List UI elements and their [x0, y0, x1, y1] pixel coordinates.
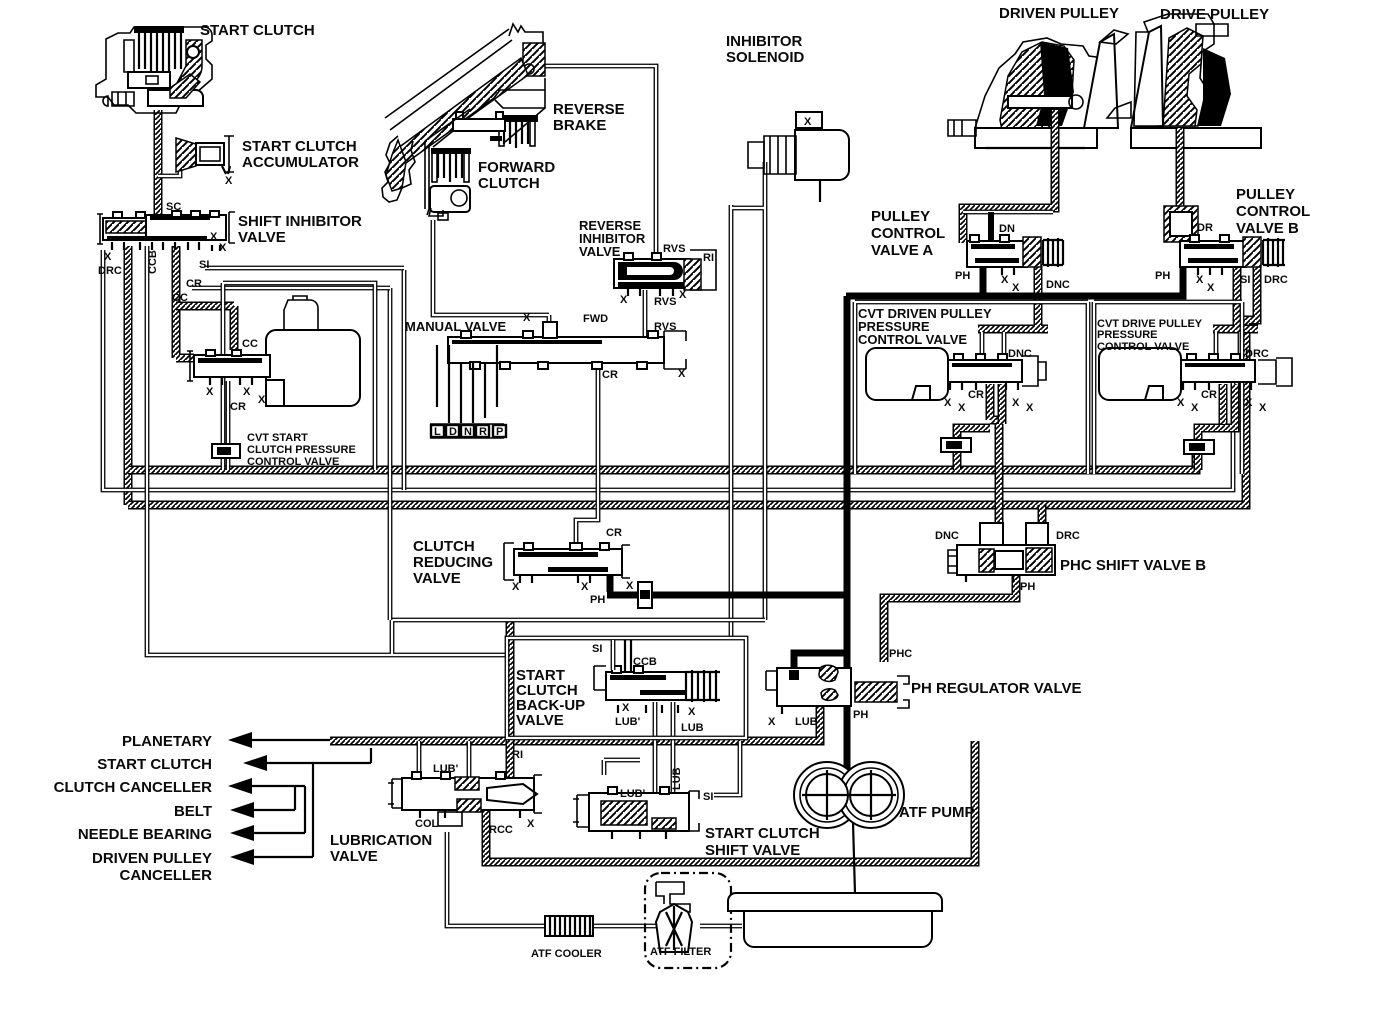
svg-text:CLUTCH CANCELLER: CLUTCH CANCELLER: [54, 779, 212, 796]
svg-text:RI: RI: [703, 252, 714, 264]
chamber DNC above driven PCV valve: [982, 332, 1004, 364]
pipe back-up valve to start clutch shift valve: [604, 702, 673, 795]
svg-text:X: X: [523, 312, 531, 324]
svg-text:CCB: CCB: [147, 250, 159, 274]
svg-text:X: X: [1001, 274, 1009, 286]
svg-text:X: X: [243, 386, 251, 398]
component ATF filter: [656, 882, 692, 952]
svg-text:LUB: LUB: [671, 767, 683, 790]
component drive pulley drawing: [1107, 14, 1261, 150]
svg-text:PRESSURE: PRESSURE: [1097, 329, 1158, 341]
svg-text:INHIBITOR: INHIBITOR: [726, 33, 803, 50]
svg-text:X: X: [944, 397, 952, 409]
svg-text:PULLEY: PULLEY: [871, 208, 930, 225]
svg-text:FWD: FWD: [583, 313, 608, 325]
pipe drive PCV second stub: [1219, 384, 1228, 424]
pipe DRC chamber stub of PHC shift valve B: [1038, 505, 1047, 525]
svg-text:CC: CC: [242, 338, 258, 350]
pipe DNC driven PCV down to PHC shift valve chamber: [990, 384, 999, 523]
svg-text:X: X: [679, 289, 687, 301]
valve lubrication: [388, 772, 542, 818]
svg-text:START CLUTCH: START CLUTCH: [242, 138, 357, 155]
svg-text:CCB: CCB: [633, 656, 657, 668]
pipe drive PCV down and to fitting: [1198, 384, 1235, 470]
svg-text:DR: DR: [1197, 222, 1213, 234]
svg-text:X: X: [620, 294, 628, 306]
svg-text:X: X: [219, 242, 227, 254]
svg-text:SC: SC: [166, 201, 181, 213]
component inhibitor solenoid: [748, 112, 849, 202]
svg-text:X: X: [512, 581, 520, 593]
svg-text:X: X: [626, 580, 634, 592]
pipe SI to start clutch shift valve: [714, 741, 740, 795]
svg-text:REVERSE: REVERSE: [553, 101, 625, 118]
svg-text:MANUAL VALVE: MANUAL VALVE: [405, 319, 506, 334]
svg-text:FORWARD: FORWARD: [478, 159, 555, 176]
svg-text:CLUTCH: CLUTCH: [413, 538, 475, 555]
svg-text:ATF FILTER: ATF FILTER: [650, 946, 711, 958]
arrow NEEDLE BEARING: [230, 786, 305, 841]
fitting COL elbow: [438, 812, 462, 826]
valve CVT driven pulley pressure control: [866, 348, 1046, 400]
svg-text:SOLENOID: SOLENOID: [726, 49, 805, 66]
component ATF cooler: [545, 916, 593, 936]
svg-text:X: X: [1026, 402, 1034, 414]
svg-text:CR: CR: [602, 369, 618, 381]
svg-text:X: X: [688, 706, 696, 718]
component start clutch drawing: [96, 26, 212, 113]
svg-text:DRC: DRC: [98, 265, 122, 277]
svg-text:X: X: [1191, 402, 1199, 414]
svg-text:SI: SI: [703, 791, 713, 803]
svg-text:X: X: [1177, 397, 1185, 409]
svg-text:PH: PH: [955, 270, 970, 282]
svg-text:CANCELLER: CANCELLER: [120, 867, 213, 884]
pipe accumulator link: [158, 164, 180, 176]
svg-text:VALVE A: VALVE A: [871, 242, 933, 259]
chamber DRC above drive PCV valve: [1216, 332, 1240, 364]
svg-text:DNC: DNC: [935, 530, 959, 542]
pipe CR line vertical x390: [388, 288, 393, 620]
svg-text:LUB': LUB': [615, 716, 641, 728]
svg-text:CR: CR: [1201, 389, 1217, 401]
svg-text:LUB: LUB: [681, 722, 704, 734]
svg-text:LUB': LUB': [433, 763, 459, 775]
arrow START CLUTCH: [243, 748, 371, 771]
box CVT driven pulley PCV enclosure: [855, 302, 1088, 474]
box CVT drive pulley PCV enclosure: [1094, 302, 1242, 474]
pipe lubrication bus y741: [330, 700, 820, 741]
pipe driven PCV to fitting: [957, 428, 990, 470]
pipe inhibitor solenoid lines: [731, 162, 765, 640]
valve CVT start clutch pressure control: [187, 296, 360, 406]
svg-text:PH: PH: [1020, 581, 1035, 593]
svg-text:LUBRICATION: LUBRICATION: [330, 832, 432, 849]
svg-text:DRIVEN PULLEY: DRIVEN PULLEY: [92, 850, 212, 867]
svg-text:X: X: [768, 716, 776, 728]
pipe lubrication valve stubs: [419, 741, 469, 779]
pipe RI into lubrication valve: [506, 621, 515, 777]
component start clutch accumulator: [176, 136, 234, 174]
valve PH regulator: [766, 665, 909, 714]
fitting drive PCV orifice: [1184, 440, 1214, 454]
arrow CLUTCH CANCELLER: [228, 778, 305, 794]
pipe COL to ATF cooler: [447, 832, 742, 926]
pipe PH from PHC shift valve B to PH regulator PHC: [884, 573, 1016, 662]
svg-text:DRC: DRC: [1245, 348, 1269, 360]
valve clutch reducing: [504, 543, 630, 583]
pipe CC loop branch: [176, 306, 234, 350]
pipe CCB line y622: [147, 246, 765, 655]
pipe bus C horizontal y505 with SI riser to pulley control valve B: [128, 265, 1257, 505]
svg-text:CVT START: CVT START: [247, 432, 308, 444]
svg-text:ACCUMULATOR: ACCUMULATOR: [242, 154, 359, 171]
svg-text:PLANETARY: PLANETARY: [122, 733, 212, 750]
svg-text:LUB: LUB: [795, 716, 818, 728]
heavy PH main vertical and box top: [846, 265, 1183, 770]
svg-text:SHIFT VALVE: SHIFT VALVE: [705, 842, 800, 859]
svg-text:VALVE B: VALVE B: [1236, 220, 1299, 237]
svg-text:ATF COOLER: ATF COOLER: [531, 948, 602, 960]
svg-text:X: X: [527, 818, 535, 830]
pipe CR horizontal from shift inhibitor valve: [192, 286, 390, 291]
svg-text:CR: CR: [230, 401, 246, 413]
valve pulley control B: [1164, 206, 1285, 275]
wire pump pickup: [853, 822, 856, 930]
pipe CR of CVT start clutch PCV to fitting: [226, 381, 231, 470]
valve pulley control A: [963, 212, 1063, 275]
box CVT start clutch pressure control valve enclosure: [223, 283, 375, 470]
svg-text:X: X: [1207, 282, 1215, 294]
valve start clutch back-up: [594, 640, 720, 713]
arrow DRIVEN PULLEY CANCELLER: [230, 763, 313, 865]
svg-text:X: X: [1012, 397, 1020, 409]
pipe RCC bus y862: [486, 741, 975, 862]
svg-text:RVS: RVS: [654, 321, 676, 333]
pipe SC start clutch feed: [154, 110, 163, 214]
svg-text:CR: CR: [968, 389, 984, 401]
svg-text:CONTROL VALVE: CONTROL VALVE: [247, 456, 339, 468]
svg-text:CC: CC: [172, 292, 188, 304]
box start clutch back-up valve enclosure: [507, 638, 746, 738]
svg-text:DNC: DNC: [1008, 348, 1032, 360]
pipe RVS manual valve to reverse inhibitor valve: [643, 290, 648, 340]
svg-text:COL: COL: [415, 818, 439, 830]
svg-text:D: D: [449, 426, 457, 438]
svg-text:PULLEY: PULLEY: [1236, 186, 1295, 203]
svg-text:X: X: [804, 116, 812, 128]
svg-text:RCC: RCC: [489, 824, 513, 836]
svg-text:X: X: [1259, 402, 1267, 414]
svg-text:DRC: DRC: [1264, 274, 1288, 286]
svg-text:ATF PUMP: ATF PUMP: [899, 804, 975, 821]
svg-text:BRAKE: BRAKE: [553, 117, 606, 134]
arrow BELT: [230, 786, 295, 818]
valve manual: [430, 322, 686, 438]
pipe bus B DRC thin y490: [103, 250, 1233, 490]
svg-text:PHC SHIFT VALVE B: PHC SHIFT VALVE B: [1060, 557, 1206, 574]
svg-text:CONTROL: CONTROL: [1236, 203, 1310, 220]
svg-text:X: X: [225, 175, 233, 187]
svg-text:PH: PH: [1155, 270, 1170, 282]
svg-text:CR: CR: [606, 527, 622, 539]
svg-text:R: R: [479, 426, 487, 438]
heavy PHC elbow at PH regulator: [794, 653, 845, 672]
valve shift inhibitor: [97, 211, 235, 251]
pipe driven pulley to pulley control valve A: [963, 148, 1055, 243]
svg-text:VALVE: VALVE: [516, 712, 564, 729]
component oil pan: [728, 893, 942, 947]
component driven pulley drawing: [948, 30, 1128, 150]
svg-text:NEEDLE BEARING: NEEDLE BEARING: [78, 826, 212, 843]
component reverse brake and forward clutch assembly: [382, 24, 545, 220]
svg-text:SI: SI: [592, 643, 602, 655]
svg-text:X: X: [1245, 397, 1253, 409]
svg-text:REDUCING: REDUCING: [413, 554, 493, 571]
pipe FWD from forward clutch to manual valve: [433, 220, 549, 330]
svg-text:DN: DN: [999, 223, 1015, 235]
svg-text:VALVE: VALVE: [579, 244, 621, 259]
pipe driven PCV second stub: [998, 384, 1007, 424]
pipe SI line vertical x404: [402, 270, 407, 490]
svg-text:X: X: [581, 581, 589, 593]
svg-text:X: X: [206, 386, 214, 398]
svg-text:PH REGULATOR VALVE: PH REGULATOR VALVE: [911, 680, 1082, 697]
svg-text:CONTROL VALVE: CONTROL VALVE: [1097, 341, 1189, 353]
svg-text:PH: PH: [590, 594, 605, 606]
svg-text:SI: SI: [199, 259, 209, 271]
svg-text:X: X: [622, 702, 630, 714]
svg-text:DRIVE PULLEY: DRIVE PULLEY: [1160, 6, 1269, 23]
svg-text:START CLUTCH: START CLUTCH: [705, 825, 820, 842]
heavy PH line from clutch reducing valve: [607, 570, 847, 595]
arrow PLANETARY: [228, 732, 330, 748]
pipe CC to CVT start clutch pressure control valve: [176, 246, 194, 358]
valve start clutch shift: [573, 787, 699, 839]
svg-text:PHC: PHC: [889, 648, 912, 660]
pipe bus A horizontal y470: [128, 452, 1196, 470]
pipe drive pulley to valve B chamber: [1176, 146, 1185, 208]
pipe DRC from pulley control valve B: [1213, 264, 1258, 329]
pipe CR from manual valve to clutch reducing valve: [576, 363, 598, 548]
svg-text:RVS: RVS: [654, 296, 676, 308]
svg-text:VALVE: VALVE: [238, 229, 286, 246]
box ATF filter dashed enclosure: [645, 873, 731, 968]
pipe SI horizontal from shift inhibitor valve: [205, 266, 404, 271]
pipe DNC from pulley control valve A: [978, 264, 1048, 329]
svg-text:CR: CR: [186, 278, 202, 290]
valve CVT drive pulley pressure control: [1099, 348, 1292, 400]
valve PHC shift valve B: [948, 523, 1055, 582]
fitting CR orifice: [212, 444, 240, 458]
svg-text:START CLUTCH: START CLUTCH: [97, 756, 212, 773]
svg-text:X: X: [104, 251, 112, 263]
svg-text:X: X: [678, 368, 686, 380]
svg-text:START CLUTCH: START CLUTCH: [200, 22, 315, 39]
svg-text:X: X: [1012, 282, 1020, 294]
svg-text:X: X: [210, 231, 218, 243]
svg-text:DRC: DRC: [1056, 530, 1080, 542]
svg-text:CLUTCH PRESSURE: CLUTCH PRESSURE: [247, 444, 356, 456]
svg-text:SHIFT INHIBITOR: SHIFT INHIBITOR: [238, 213, 362, 230]
svg-text:CLUTCH: CLUTCH: [478, 175, 540, 192]
pipe CC left vertical: [124, 246, 133, 505]
pipe reverse brake line: [545, 66, 656, 258]
svg-text:X: X: [1196, 274, 1204, 286]
svg-text:VALVE: VALVE: [413, 570, 461, 587]
svg-text:CONTROL VALVE: CONTROL VALVE: [858, 332, 967, 347]
svg-text:LUB': LUB': [620, 788, 646, 800]
svg-text:SI: SI: [1240, 274, 1250, 286]
fitting orifice on PH line: [638, 582, 652, 608]
valve reverse inhibitor: [614, 250, 716, 296]
svg-text:RI: RI: [512, 749, 523, 761]
svg-text:CONTROL: CONTROL: [871, 225, 945, 242]
fitting driven PCV orifice: [941, 438, 971, 452]
svg-text:RVS: RVS: [663, 243, 685, 255]
svg-text:P: P: [496, 426, 503, 438]
svg-text:N: N: [464, 426, 472, 438]
svg-text:DNC: DNC: [1046, 279, 1070, 291]
svg-text:PH: PH: [853, 709, 868, 721]
svg-text:DRIVEN PULLEY: DRIVEN PULLEY: [999, 5, 1119, 22]
svg-text:X: X: [958, 402, 966, 414]
svg-text:BELT: BELT: [174, 803, 212, 820]
svg-text:VALVE: VALVE: [330, 848, 378, 865]
svg-text:L: L: [434, 426, 441, 438]
svg-text:X: X: [258, 394, 266, 406]
component ATF pump: [794, 762, 904, 828]
